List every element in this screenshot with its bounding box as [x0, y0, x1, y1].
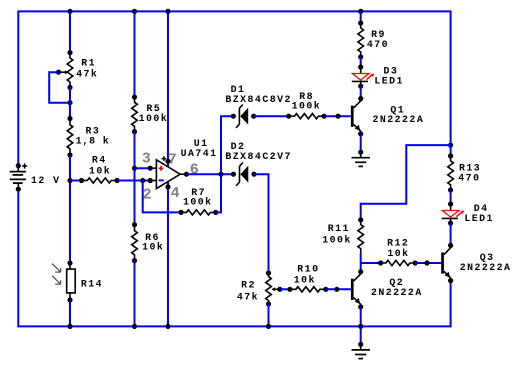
svg-text:6: 6 — [190, 161, 199, 178]
svg-text:1,8 k: 1,8 k — [76, 136, 110, 147]
svg-text:R14: R14 — [81, 279, 103, 290]
svg-text:R11: R11 — [328, 223, 350, 234]
svg-text:R10: R10 — [297, 263, 319, 274]
svg-text:100k: 100k — [322, 235, 352, 246]
svg-text:R2: R2 — [241, 279, 256, 290]
svg-text:4: 4 — [171, 185, 180, 202]
svg-text:10k: 10k — [294, 275, 316, 286]
svg-text:12 V: 12 V — [31, 175, 61, 186]
svg-text:100k: 100k — [183, 196, 213, 207]
svg-text:UA741: UA741 — [181, 148, 218, 159]
svg-text:10k: 10k — [142, 242, 164, 253]
svg-text:R4: R4 — [92, 155, 107, 166]
svg-text:LED1: LED1 — [374, 76, 404, 87]
svg-text:BZX84C8V2: BZX84C8V2 — [225, 94, 291, 105]
svg-text:3: 3 — [142, 150, 151, 167]
svg-text:47k: 47k — [237, 292, 259, 303]
svg-text:10k: 10k — [387, 248, 409, 259]
svg-text:470: 470 — [367, 39, 389, 50]
svg-text:BZX84C2V7: BZX84C2V7 — [225, 151, 291, 162]
svg-text:2N2222A: 2N2222A — [460, 262, 512, 273]
svg-text:R1: R1 — [81, 58, 96, 69]
svg-text:2: 2 — [143, 187, 152, 204]
svg-text:100k: 100k — [292, 101, 322, 112]
svg-text:2N2222A: 2N2222A — [371, 287, 423, 298]
svg-text:47k: 47k — [76, 69, 98, 80]
svg-text:LED1: LED1 — [464, 213, 494, 224]
svg-text:100k: 100k — [139, 113, 169, 124]
svg-text:7: 7 — [168, 152, 177, 169]
svg-text:2N2222A: 2N2222A — [373, 114, 425, 125]
svg-text:10k: 10k — [89, 166, 111, 177]
svg-text:470: 470 — [458, 173, 480, 184]
